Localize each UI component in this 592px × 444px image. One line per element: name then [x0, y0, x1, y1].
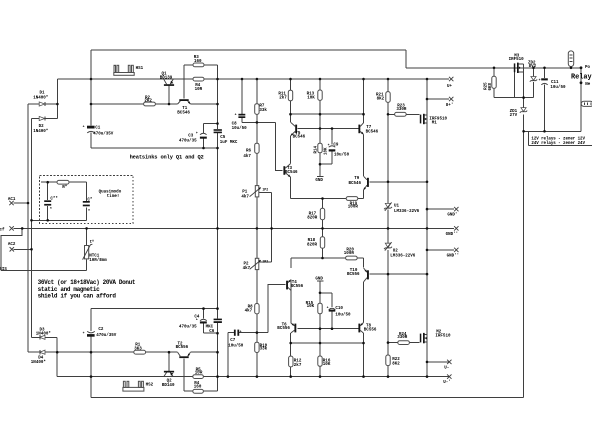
transistor Q2 [162, 371, 175, 388]
svg-text:R6: R6 [246, 150, 252, 154]
wire P1 wiper stub [259, 191, 272, 193]
wire T1 collector x184 [183, 65, 185, 99]
junction dots row352 [56, 351, 219, 354]
wire AC1 vertical x28 [27, 104, 29, 352]
svg-text:GND': GND' [447, 213, 457, 218]
wire R19 row y198.5 [291, 198, 364, 200]
svg-text:+: + [196, 131, 198, 135]
resistor R22 [386, 355, 400, 366]
resistor R16 [318, 356, 331, 367]
capacitor C* [83, 197, 93, 214]
capacitor C7 [228, 330, 244, 349]
terminal U+' [446, 97, 454, 108]
svg-text:HS2: HS2 [146, 384, 154, 388]
wire M3 gate stub [513, 72, 515, 97]
svg-text:BD140: BD140 [162, 384, 175, 388]
diode D3 [36, 329, 52, 340]
wire Q2 stem x169 [168, 352, 170, 371]
svg-text:D2: D2 [39, 125, 45, 129]
wire top rail y50 [91, 49, 406, 51]
junction dots relay rail [493, 67, 573, 133]
wire lower base row y328.7 [298, 328, 359, 330]
wire Q1 stem x169 [168, 86, 170, 104]
wire T10 base row y274.1 [370, 273, 427, 275]
wire C2 column x91 [90, 309, 92, 398]
wire relay feed x581 [580, 68, 582, 132]
wire C9 column x332 [331, 129, 333, 165]
resistor R13 [307, 90, 323, 101]
svg-text:4k7: 4k7 [243, 266, 251, 271]
svg-text:10R: 10R [195, 372, 203, 376]
wire U+' stub y99 [427, 98, 449, 100]
ground GND lower [315, 277, 323, 281]
svg-text:820R: 820R [307, 216, 318, 220]
wire base row y128.5 [298, 128, 359, 130]
svg-text:Ne: Ne [585, 83, 591, 87]
wire heatsink row y148 [91, 147, 218, 149]
svg-text:IRF510: IRF510 [509, 58, 525, 62]
wire V- rail y376.6 [57, 376, 449, 378]
label quasimodo [99, 189, 122, 199]
svg-text:1P2: 1P2 [262, 187, 268, 191]
node Po [580, 66, 591, 70]
transistor T1 [177, 99, 190, 116]
resistor R24 [397, 333, 409, 345]
resistor R23 [395, 105, 407, 117]
svg-text:470u/35V: 470u/35V [93, 132, 114, 137]
svg-text:10K: 10K [323, 363, 331, 367]
resistor R4 [193, 77, 204, 92]
svg-text:D1: D1 [40, 92, 46, 96]
wire R7 R6 P1 column x256.9 [256, 79, 258, 377]
mosfet M3 IRF510 [509, 54, 525, 75]
connector fuse horizontal [581, 101, 592, 106]
wire bottom rail y397.5 [91, 397, 524, 399]
wire R25 column x494 [493, 68, 495, 98]
terminal AC1 [8, 198, 16, 205]
svg-text:C10: C10 [335, 307, 343, 311]
heatsink HS1 [114, 65, 144, 75]
svg-text:330R: 330R [396, 108, 407, 112]
wire lower box top y308.6 [91, 308, 218, 310]
wire R13 column x320 [319, 79, 321, 164]
transistor T2 [176, 343, 191, 358]
terminal U- [444, 360, 451, 371]
svg-text:C11: C11 [551, 81, 559, 85]
junction dots top rail [90, 78, 429, 81]
transistor T7 [358, 123, 378, 135]
svg-text:T7: T7 [366, 126, 372, 130]
resistor R21 [376, 92, 390, 103]
wire R20 row y258 [291, 257, 364, 259]
svg-text:330R: 330R [397, 336, 408, 340]
transistor T4 [286, 280, 304, 291]
junction dots bottom rail [90, 375, 429, 378]
svg-text:C8: C8 [232, 123, 238, 127]
wire step down x406 [405, 50, 407, 68]
svg-text:+: + [196, 317, 198, 321]
resistor R25 rotated label [484, 76, 496, 90]
resistor R19 [346, 197, 358, 210]
wire R1 T2 row y352.2 [28, 351, 218, 353]
svg-text:T9: T9 [354, 177, 360, 181]
resistor R15 [306, 302, 323, 314]
svg-text:heatsinks only Q1 and Q2: heatsinks only Q1 and Q2 [130, 154, 204, 160]
svg-text:SIS: SIS [0, 268, 7, 272]
zener ZD1 [510, 108, 528, 118]
svg-text:BC556: BC556 [291, 285, 304, 289]
resistor R10 [255, 342, 268, 352]
svg-text:C*: C* [87, 197, 93, 202]
wire NTC riser x86.6 [86, 228, 88, 270]
svg-text:C5: C5 [220, 136, 226, 140]
wire mid GND rail y228.4 [14, 227, 455, 229]
svg-text:IRF510: IRF510 [435, 335, 451, 339]
wire GND1 stub y209.1 [427, 208, 454, 210]
svg-text:4k7: 4k7 [243, 154, 251, 159]
svg-text:R14: R14 [314, 145, 318, 153]
trimmer P2 [243, 258, 261, 271]
wire R2 row y104 [91, 103, 218, 105]
resistor R6 [243, 143, 259, 159]
resistor R17 [307, 208, 324, 220]
wire T4 T6 column x290.7 [290, 258, 292, 377]
svg-text:BC556: BC556 [364, 328, 377, 332]
wire D2 row y118.5 [32, 118, 58, 120]
wire gnd link y164.2 [320, 163, 332, 165]
svg-text:BC556: BC556 [176, 346, 189, 350]
capacitor C3 [179, 133, 207, 143]
transistor T6 [277, 323, 296, 333]
wire T8 T10 column x363.5 lower [363, 258, 365, 377]
vref U2 LM336-22V6 [384, 242, 416, 258]
wire relay box top y131.3 [524, 130, 581, 132]
svg-text:C3: C3 [188, 135, 194, 139]
wire quasimodo R row y182.2 [41, 181, 86, 183]
junction dots quasimodo [27, 181, 49, 251]
svg-text:10u/50: 10u/50 [228, 343, 244, 348]
wire output bus x427 [426, 79, 428, 377]
wire quasimodo bottom y220.3 [32, 219, 87, 221]
wire C7 row y332.6 [228, 332, 268, 334]
mosfet M1 IRF9510 [420, 113, 448, 125]
resistor R* [57, 180, 69, 190]
svg-text:10u/50: 10u/50 [334, 153, 350, 158]
wire R23 row y114.3 [388, 113, 420, 115]
svg-text:GND: GND [315, 277, 323, 281]
capacitor C11 [541, 78, 566, 90]
diode D2 [33, 116, 49, 133]
svg-text:LM336-22V6: LM336-22V6 [390, 254, 416, 258]
svg-text:27V: 27V [510, 114, 518, 118]
svg-text:cf: cf [0, 227, 5, 232]
wire relay rail y67.8 [406, 67, 581, 69]
wire C4 link y333.2 [204, 332, 218, 334]
wire relay box left x528.7 [528, 131, 530, 145]
svg-text:10u/50: 10u/50 [335, 312, 351, 317]
svg-text:U-': U-' [443, 380, 451, 385]
thermistor NTC1 [83, 240, 108, 263]
svg-text:10K: 10K [307, 97, 315, 101]
svg-text:+: + [83, 331, 85, 335]
wire D1 row y104 [28, 103, 57, 105]
wire quasimodo Cx column x86.3 [85, 182, 87, 220]
terminal AC2 [8, 243, 16, 251]
wire T4 base riser x268.2 [268, 285, 285, 333]
svg-text:P1: P1 [242, 191, 248, 195]
resistor R20 [344, 249, 357, 260]
svg-text:BC546: BC546 [366, 131, 379, 135]
svg-text:3K3: 3K3 [134, 347, 142, 351]
capacitor C5 [214, 129, 238, 145]
svg-text:10u/50: 10u/50 [550, 85, 566, 90]
svg-text:10K: 10K [325, 147, 329, 155]
svg-text:HS1: HS1 [136, 67, 144, 71]
svg-text:M1: M1 [432, 122, 438, 126]
wire C3 column x203.5 [203, 124, 205, 149]
svg-text:6K8: 6K8 [489, 82, 493, 90]
polarity marks electrolytics [83, 78, 541, 335]
svg-text:33k: 33k [259, 108, 267, 113]
junction dots row104 [56, 103, 219, 106]
svg-text:GND'': GND'' [446, 232, 459, 237]
svg-text:shield if you can afford: shield if you can afford [38, 292, 117, 299]
svg-text:D4: D4 [38, 356, 44, 360]
zener ZD2 [528, 61, 537, 81]
connector fuse vertical [568, 51, 573, 67]
svg-text:U1: U1 [394, 204, 400, 208]
wire chassis row y270.7 [1, 270, 86, 272]
terminal GND''' [447, 248, 460, 259]
svg-text:BD139: BD139 [160, 76, 173, 80]
wire C11 column x544.5 [544, 68, 546, 132]
quasimodo dashed box [40, 175, 134, 223]
resistor R3 [193, 56, 204, 67]
wire R3 loop top y64.8 [184, 64, 218, 66]
wire gnd stem upper [319, 164, 321, 176]
svg-text:BC556: BC556 [347, 273, 360, 277]
svg-text:+: + [235, 113, 237, 117]
svg-text:+: + [83, 125, 85, 129]
terminal U-' [443, 374, 451, 385]
svg-text:4k7: 4k7 [241, 194, 249, 199]
resistor R5 [193, 368, 204, 378]
svg-text:AC2: AC2 [8, 243, 16, 247]
wire relay box bottom y145.7 [529, 145, 592, 147]
svg-text:U-: U- [444, 366, 449, 370]
svg-text:P2: P2 [244, 263, 250, 267]
capacitor C10 [329, 307, 351, 317]
label transformer note [38, 279, 136, 299]
terminal U+ [447, 77, 453, 89]
svg-text:BC546: BC546 [285, 171, 298, 175]
wire U- stub y361.9 [427, 361, 449, 363]
wire D3D4 riser x57.2 [56, 337, 58, 376]
svg-text:BC546: BC546 [349, 182, 362, 186]
svg-text:24V relays - zener 24V: 24V relays - zener 24V [531, 141, 585, 146]
svg-text:10R/8mm: 10R/8mm [89, 258, 107, 263]
wire R11 T5 column x290.5 [290, 79, 292, 199]
svg-text:33k: 33k [260, 347, 268, 352]
svg-text:2K2: 2K2 [144, 100, 152, 104]
svg-text:C1: C1 [95, 127, 101, 131]
svg-text:BC556: BC556 [277, 327, 290, 331]
transistor T3 [283, 164, 298, 177]
capacitor C** [44, 197, 58, 213]
resistor R8 [245, 304, 260, 314]
svg-text:100R: 100R [348, 205, 359, 209]
svg-text:1N400*: 1N400* [36, 332, 52, 337]
wire R24 row y342.6 [388, 342, 420, 344]
wire T9 base row y181.8 [370, 181, 427, 183]
junction dots lower mid [202, 249, 428, 364]
vref U1 LM336-22V6 [384, 202, 420, 214]
svg-text:+: + [327, 305, 329, 309]
heatsink HS2 [123, 381, 154, 391]
transistor T8 [358, 323, 376, 334]
svg-text:+: + [539, 78, 541, 82]
svg-text:BC546: BC546 [177, 112, 190, 116]
capacitor C4 [179, 315, 207, 329]
junction dots gnd rail [21, 227, 428, 230]
wire wiper column x271.6 [271, 192, 273, 262]
wire C4 column x203.5 [203, 309, 205, 334]
svg-text:4k7: 4k7 [245, 309, 253, 314]
capacitor C9 [329, 143, 350, 157]
resistor R7 [255, 104, 268, 115]
wire gnd link lower y292.8 [320, 292, 332, 294]
resistor R14 rotated label [314, 143, 328, 155]
svg-text:GND'': GND'' [447, 254, 460, 259]
wire T3 base riser x275.4 [275, 122, 282, 170]
label relay zener note [531, 137, 585, 147]
wire T5 collector row y114.2 [291, 113, 364, 115]
svg-text:820R: 820R [307, 243, 318, 247]
wire R15 column x320 lower [319, 281, 321, 376]
wire C3 link y123.5 [204, 123, 218, 125]
wire AC1 stub y203 [14, 202, 29, 204]
svg-text:12V relays - zener 12V: 12V relays - zener 12V [531, 137, 585, 142]
trimmer P1 [241, 186, 261, 200]
svg-text:Quasimodo: Quasimodo [99, 189, 122, 194]
svg-text:10u/50: 10u/50 [232, 126, 248, 131]
svg-text:470u/35: 470u/35 [179, 324, 197, 329]
wire P2 wiper stub [259, 261, 272, 263]
svg-text:U+': U+' [446, 103, 454, 108]
svg-text:time!: time! [107, 194, 120, 199]
transistor Q1 [160, 73, 174, 86]
capacitor C1 [87, 126, 114, 137]
svg-text:+: + [328, 143, 330, 147]
node Ne [580, 81, 591, 86]
resistor R18 [307, 237, 325, 248]
wire R4b loop bottom y391.2 [184, 390, 218, 392]
svg-text:C6: C6 [209, 330, 215, 334]
wire ZD1 column x523.6 [523, 75, 525, 131]
svg-text:470u/35V: 470u/35V [96, 333, 117, 338]
svg-text:Po: Po [585, 66, 591, 70]
capacitor C6 [206, 319, 222, 334]
wire C8 column x242 [241, 79, 243, 122]
svg-text:10R: 10R [195, 88, 203, 92]
capacitor C2 [87, 328, 117, 338]
resistor R12 [289, 356, 302, 368]
wire quasimodo Cxx column x47.7 [47, 182, 49, 220]
wire C8 T3base link y122.4 [242, 121, 275, 123]
diode D4 [31, 350, 47, 365]
svg-text:1P2: 1P2 [262, 259, 268, 263]
transistor T5 [291, 122, 306, 139]
wire riser D1D2 node x57.4 [56, 79, 58, 119]
svg-text:R*: R* [62, 185, 68, 190]
svg-text:R25: R25 [484, 82, 488, 90]
svg-text:2k7: 2k7 [294, 363, 302, 368]
resistor R4b [193, 382, 204, 393]
wire T2 collector x184 [183, 358, 185, 391]
svg-text:NTC1: NTC1 [89, 255, 100, 259]
transistor T9 [349, 176, 369, 190]
svg-text:BC546: BC546 [293, 136, 306, 140]
svg-text:1N400*: 1N400* [33, 129, 49, 134]
svg-text:C7: C7 [230, 339, 236, 343]
wire C10 column x332 [331, 293, 333, 329]
resistor R1 [134, 344, 146, 354]
wire Vcf chassis link [1, 228, 22, 270]
svg-text:8K2: 8K2 [392, 362, 400, 366]
wire main column x217.5 [217, 65, 219, 391]
svg-text:160: 160 [194, 385, 202, 389]
terminal Vcf [0, 226, 14, 232]
junction dots mid area [202, 98, 428, 211]
ground GND upper [315, 176, 323, 183]
wire ZD2 column x533.5 [533, 68, 535, 98]
terminal GND' [447, 207, 458, 218]
svg-text:Relay: Relay [571, 73, 592, 81]
resistor R11 [278, 90, 292, 101]
svg-text:10K: 10K [307, 305, 315, 309]
svg-text:2k7: 2k7 [279, 95, 287, 100]
wire GND3 stub y249.9 [427, 249, 454, 251]
wire U1 U2 column x388 [387, 79, 389, 377]
svg-text:C9: C9 [333, 143, 339, 147]
svg-text:LM336-22V6: LM336-22V6 [394, 210, 420, 214]
svg-text:470u/35: 470u/35 [179, 139, 197, 144]
svg-text:U+: U+ [447, 85, 453, 89]
wire AC2 stub y249.3 [14, 248, 32, 250]
transistor T10 [347, 268, 369, 282]
svg-text:100R: 100R [344, 252, 355, 256]
capacitor C8 [232, 114, 248, 131]
wire R17 column x322.5 [322, 199, 324, 229]
wire T6 collector row y343 [291, 342, 364, 344]
terminal GND'' [446, 226, 459, 237]
wire AC2 vertical x31.5 [31, 119, 33, 338]
svg-text:+: + [240, 329, 242, 333]
svg-text:C**: C** [50, 197, 58, 202]
svg-text:MKC: MKC [206, 325, 214, 329]
svg-text:1uF MKC: 1uF MKC [220, 141, 238, 145]
wire C1 column x91 top [90, 50, 92, 148]
wire gate row y97.6 [494, 97, 534, 99]
wire D3 row y337.3 [32, 336, 58, 338]
mosfet M2 IRF510 [420, 331, 451, 344]
svg-text:GND: GND [315, 179, 323, 183]
wire C7 left riser x227.9 [227, 333, 229, 377]
wire R18 column x322.5 [322, 228, 324, 258]
svg-text:1N400*: 1N400* [33, 96, 49, 101]
svg-text:160: 160 [194, 60, 202, 64]
resistor R2 [144, 96, 156, 106]
